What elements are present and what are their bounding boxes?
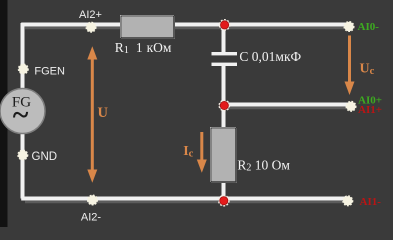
svg-text:U: U — [98, 105, 109, 121]
svg-text:GND: GND — [32, 151, 58, 163]
svg-text:AI2+: AI2+ — [79, 9, 102, 21]
svg-text:AI1+: AI1+ — [358, 104, 382, 116]
svg-text:R2 10 Ом: R2 10 Ом — [237, 158, 290, 174]
svg-text:AI1-: AI1- — [360, 196, 382, 208]
svg-text:C 0,01мкФ: C 0,01мкФ — [239, 49, 301, 64]
svg-text:FGEN: FGEN — [34, 66, 65, 78]
svg-text:AI2-: AI2- — [81, 212, 102, 224]
svg-text:AI0-: AI0- — [358, 21, 380, 33]
svg-text:~: ~ — [13, 99, 29, 132]
